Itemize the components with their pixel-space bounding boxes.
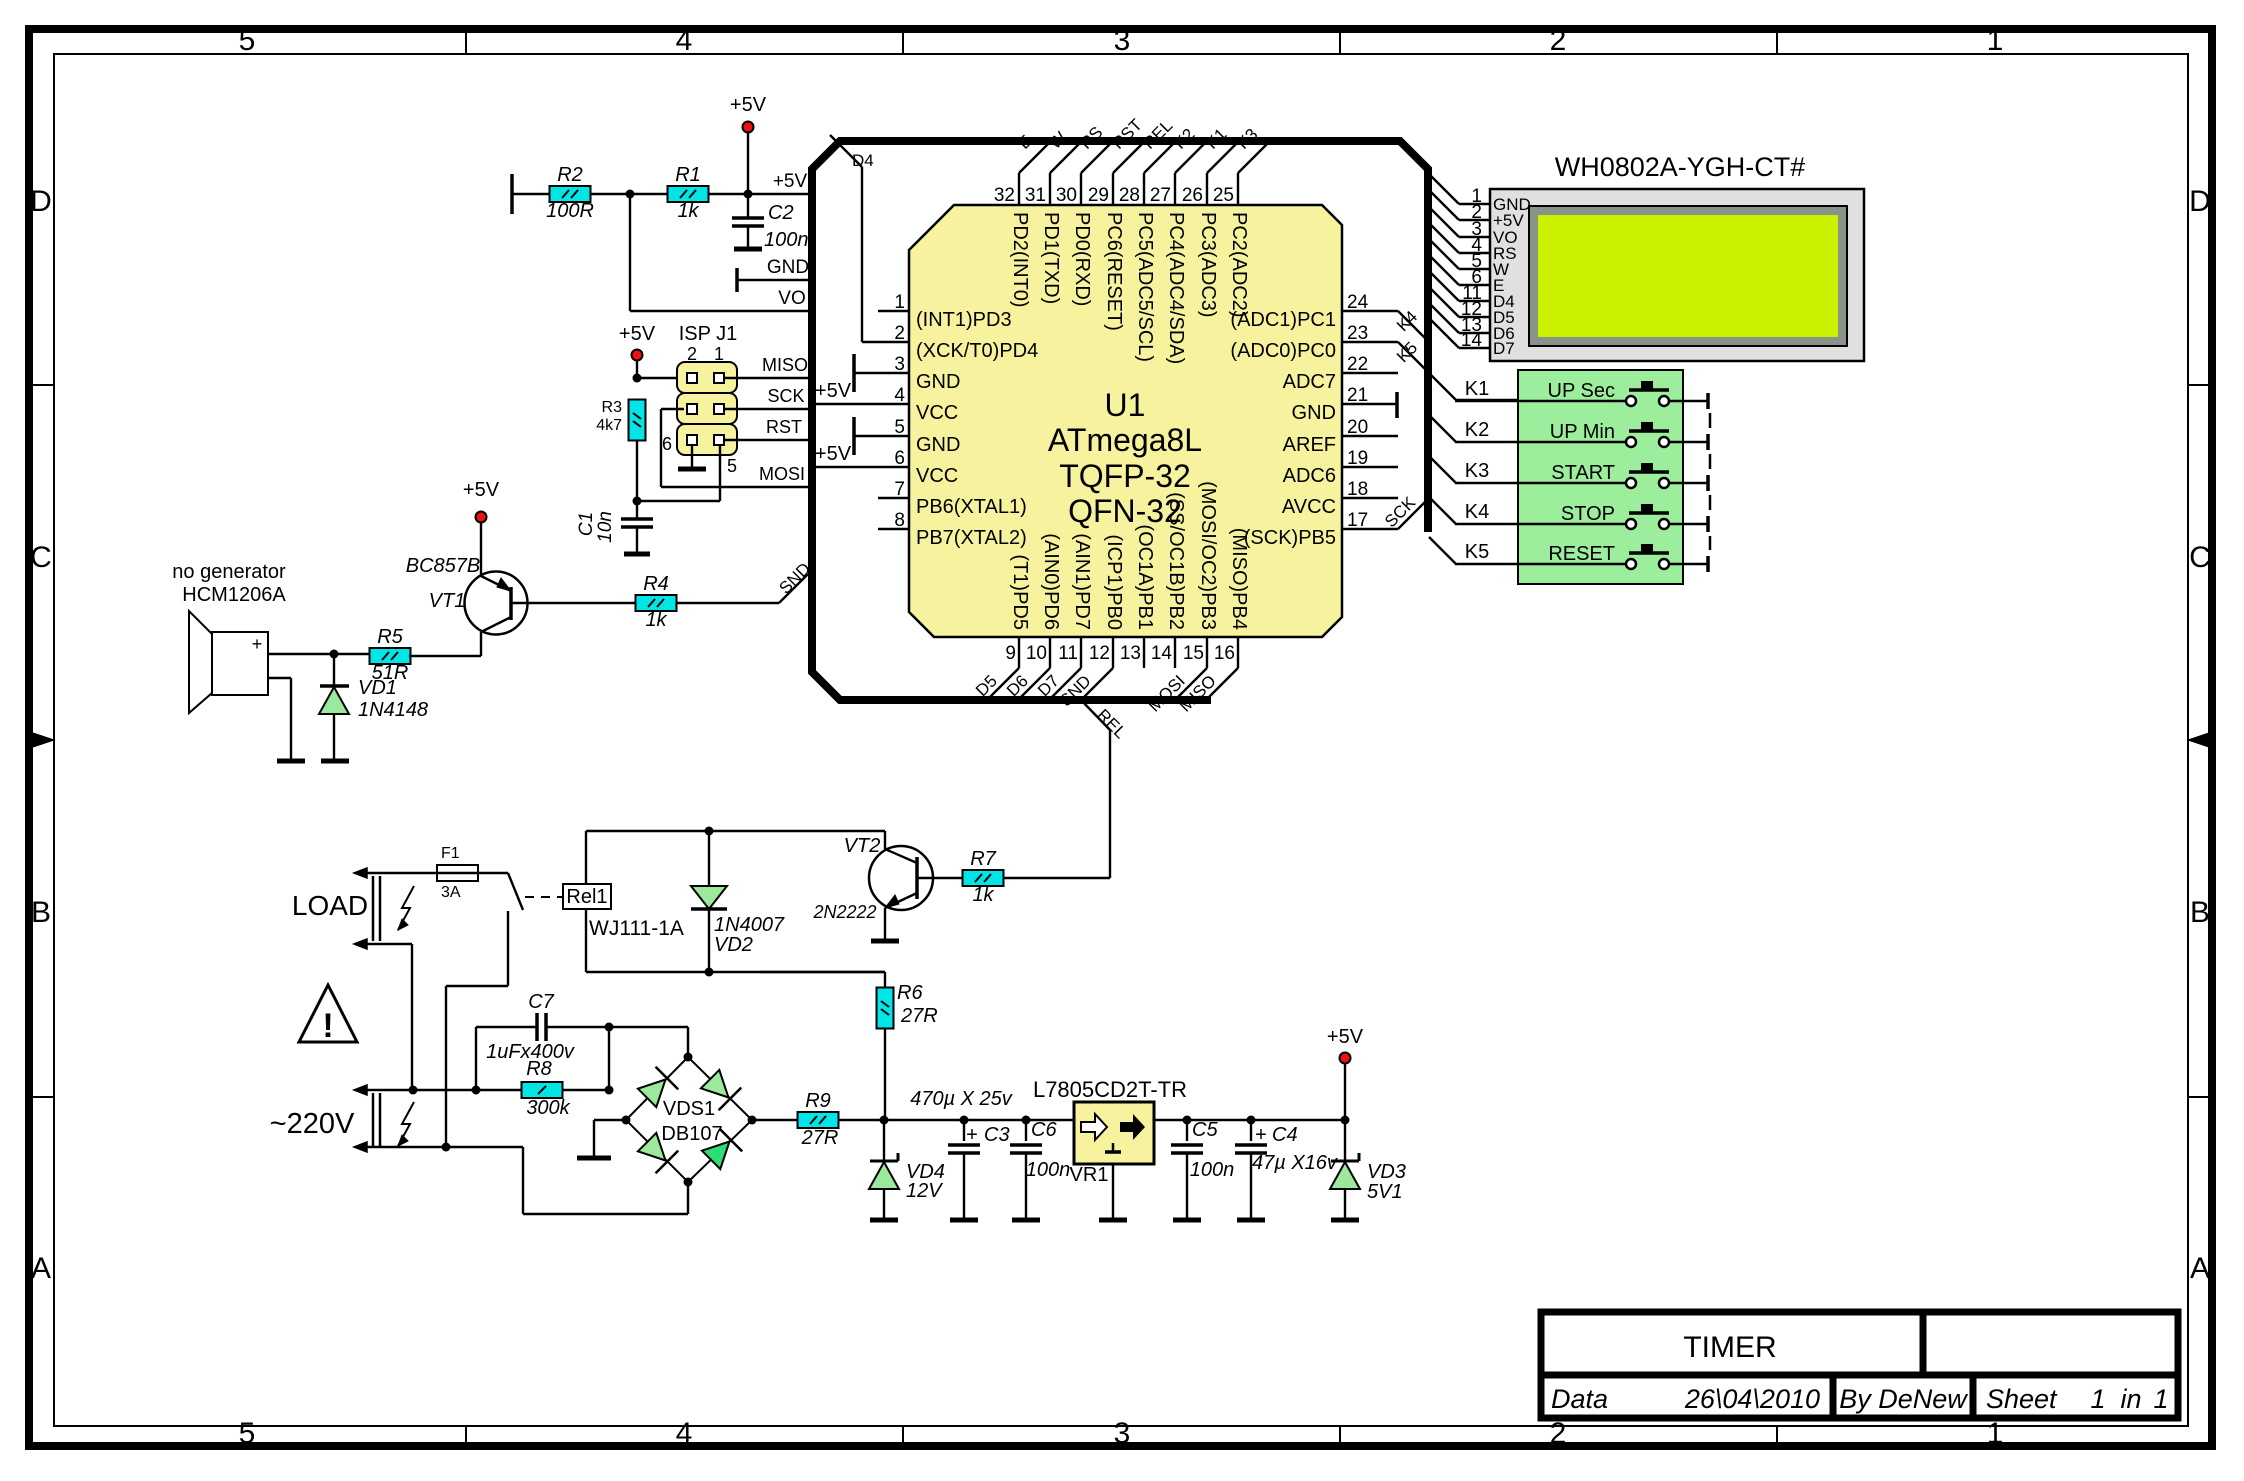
svg-text:100R: 100R bbox=[546, 200, 594, 222]
svg-text:VR1: VR1 bbox=[1070, 1164, 1109, 1186]
svg-text:PD0(RXD): PD0(RXD) bbox=[1071, 212, 1093, 306]
svg-text:GND: GND bbox=[1292, 402, 1336, 424]
svg-text:C7: C7 bbox=[528, 991, 554, 1013]
svg-text:MISO: MISO bbox=[762, 355, 808, 375]
svg-text:in: in bbox=[2120, 1384, 2141, 1414]
svg-text:5V1: 5V1 bbox=[1367, 1181, 1403, 1203]
svg-text:100n: 100n bbox=[1026, 1159, 1071, 1181]
svg-text:PC4(ADC4/SDA): PC4(ADC4/SDA) bbox=[1165, 212, 1187, 364]
svg-text:A: A bbox=[31, 1252, 51, 1285]
svg-text:QFN-32: QFN-32 bbox=[1068, 493, 1182, 529]
svg-text:UP Min: UP Min bbox=[1550, 421, 1615, 443]
svg-text:26: 26 bbox=[1182, 185, 1203, 206]
svg-text:(MOSI/OC2)PB3: (MOSI/OC2)PB3 bbox=[1197, 481, 1219, 630]
svg-text:F1: F1 bbox=[441, 845, 460, 862]
svg-text:(XCK/T0)PD4: (XCK/T0)PD4 bbox=[916, 340, 1038, 362]
svg-text:R6: R6 bbox=[897, 982, 923, 1004]
svg-text:D: D bbox=[30, 185, 52, 218]
svg-text:+5V: +5V bbox=[815, 443, 852, 465]
svg-text:L7805CD2T-TR: L7805CD2T-TR bbox=[1033, 1077, 1187, 1102]
svg-text:C3: C3 bbox=[984, 1124, 1010, 1146]
svg-text:PB6(XTAL1): PB6(XTAL1) bbox=[916, 496, 1027, 518]
svg-text:!: ! bbox=[322, 1007, 333, 1045]
svg-text:2: 2 bbox=[1550, 24, 1567, 57]
svg-text:+: + bbox=[1255, 1124, 1267, 1146]
svg-text:(AIN1)PD7: (AIN1)PD7 bbox=[1071, 533, 1093, 630]
svg-text:U1: U1 bbox=[1105, 387, 1146, 423]
svg-text:(AIN0)PD6: (AIN0)PD6 bbox=[1040, 533, 1062, 630]
svg-text:R3: R3 bbox=[602, 399, 623, 416]
svg-text:TQFP-32: TQFP-32 bbox=[1059, 458, 1191, 494]
svg-text:13: 13 bbox=[1120, 643, 1141, 664]
svg-text:4k7: 4k7 bbox=[596, 417, 622, 434]
svg-text:ADC7: ADC7 bbox=[1283, 371, 1336, 393]
svg-text:PB7(XTAL2): PB7(XTAL2) bbox=[916, 527, 1027, 549]
svg-text:R8: R8 bbox=[526, 1058, 552, 1080]
svg-text:VT1: VT1 bbox=[429, 590, 466, 612]
svg-text:(ADC0)PC0: (ADC0)PC0 bbox=[1230, 340, 1336, 362]
svg-text:4: 4 bbox=[676, 24, 693, 57]
svg-text:5: 5 bbox=[239, 1417, 256, 1450]
svg-text:1k: 1k bbox=[972, 884, 994, 906]
svg-text:ATmega8L: ATmega8L bbox=[1048, 422, 1202, 458]
svg-text:27R: 27R bbox=[900, 1005, 938, 1027]
svg-text:K3: K3 bbox=[1465, 460, 1489, 482]
svg-text:25: 25 bbox=[1213, 185, 1234, 206]
svg-text:TIMER: TIMER bbox=[1683, 1331, 1776, 1364]
svg-text:K5: K5 bbox=[1465, 541, 1489, 563]
svg-text:(OC1A)PB1: (OC1A)PB1 bbox=[1134, 524, 1156, 630]
svg-text:+: + bbox=[966, 1124, 978, 1146]
svg-text:14: 14 bbox=[1151, 643, 1173, 664]
svg-text:AREF: AREF bbox=[1283, 434, 1336, 456]
svg-text:30: 30 bbox=[1056, 185, 1077, 206]
svg-text:15: 15 bbox=[1183, 643, 1204, 664]
svg-text:STOP: STOP bbox=[1561, 503, 1615, 525]
svg-text:10: 10 bbox=[1026, 643, 1047, 664]
svg-text:R1: R1 bbox=[675, 164, 701, 186]
svg-text:12: 12 bbox=[1089, 643, 1110, 664]
svg-text:5: 5 bbox=[727, 456, 737, 476]
svg-text:A: A bbox=[2190, 1252, 2210, 1285]
svg-text:BC857B: BC857B bbox=[406, 555, 481, 577]
svg-text:MOSI: MOSI bbox=[759, 464, 805, 484]
svg-text:GND: GND bbox=[916, 434, 960, 456]
svg-text:47µ X16v: 47µ X16v bbox=[1252, 1152, 1338, 1174]
svg-text:51R: 51R bbox=[372, 662, 409, 684]
svg-text:470µ X 25v: 470µ X 25v bbox=[910, 1088, 1013, 1110]
svg-text:VDS1: VDS1 bbox=[663, 1098, 715, 1120]
svg-text:Rel1: Rel1 bbox=[566, 886, 607, 908]
svg-text:no generator: no generator bbox=[172, 561, 286, 583]
svg-text:C2: C2 bbox=[768, 202, 794, 224]
svg-text:1: 1 bbox=[1987, 24, 2004, 57]
svg-text:PC2(ADC2): PC2(ADC2) bbox=[1228, 212, 1250, 318]
svg-text:1N4148: 1N4148 bbox=[358, 699, 428, 721]
svg-text:R2: R2 bbox=[557, 164, 583, 186]
svg-text:VCC: VCC bbox=[916, 465, 958, 487]
svg-text:+5V: +5V bbox=[1327, 1026, 1364, 1048]
svg-text:3A: 3A bbox=[441, 884, 461, 901]
svg-text:PD2(INT0): PD2(INT0) bbox=[1009, 212, 1031, 308]
svg-text:C: C bbox=[30, 541, 52, 574]
svg-text:GND: GND bbox=[916, 371, 960, 393]
svg-text:12V: 12V bbox=[906, 1180, 943, 1202]
svg-text:9: 9 bbox=[1005, 643, 1016, 664]
svg-text:LOAD: LOAD bbox=[292, 890, 368, 921]
svg-text:WJ111-1A: WJ111-1A bbox=[589, 917, 684, 940]
svg-text:(SS/OC1B)PB2: (SS/OC1B)PB2 bbox=[1165, 492, 1187, 630]
svg-text:R9: R9 bbox=[805, 1090, 831, 1112]
svg-text:By DeNew: By DeNew bbox=[1839, 1384, 1968, 1414]
svg-text:4: 4 bbox=[676, 1417, 693, 1450]
svg-text:SCK: SCK bbox=[767, 386, 804, 406]
svg-text:3: 3 bbox=[1114, 24, 1131, 57]
svg-text:C: C bbox=[2189, 541, 2211, 574]
svg-text:VD2: VD2 bbox=[714, 934, 753, 956]
svg-text:R4: R4 bbox=[643, 573, 669, 595]
svg-text:+5V: +5V bbox=[815, 380, 852, 402]
svg-text:AVCC: AVCC bbox=[1282, 496, 1336, 518]
svg-text:+5V: +5V bbox=[463, 479, 500, 501]
svg-text:1: 1 bbox=[2090, 1384, 2105, 1414]
svg-text:3: 3 bbox=[1114, 1417, 1131, 1450]
svg-text:5: 5 bbox=[239, 24, 256, 57]
svg-text:RST: RST bbox=[766, 417, 802, 437]
svg-text:D: D bbox=[2189, 185, 2211, 218]
svg-text:B: B bbox=[31, 896, 51, 929]
svg-text:UP Sec: UP Sec bbox=[1548, 380, 1615, 402]
svg-text:Data: Data bbox=[1551, 1384, 1608, 1414]
svg-text:~220V: ~220V bbox=[270, 1108, 355, 1140]
svg-text:6: 6 bbox=[662, 434, 672, 454]
svg-text:28: 28 bbox=[1119, 185, 1140, 206]
svg-text:+5V: +5V bbox=[773, 171, 808, 192]
svg-text:HCM1206A: HCM1206A bbox=[182, 584, 286, 606]
svg-text:B: B bbox=[2190, 896, 2210, 929]
svg-text:2: 2 bbox=[1550, 1417, 1567, 1450]
svg-text:RESET: RESET bbox=[1548, 543, 1615, 565]
svg-text:27: 27 bbox=[1150, 185, 1171, 206]
svg-text:1: 1 bbox=[1987, 1417, 2004, 1450]
svg-text:11: 11 bbox=[1058, 643, 1078, 664]
svg-text:VT2: VT2 bbox=[844, 835, 881, 857]
svg-text:PC6(RESET): PC6(RESET) bbox=[1103, 212, 1125, 331]
svg-text:D4: D4 bbox=[852, 151, 874, 170]
svg-text:C6: C6 bbox=[1031, 1119, 1057, 1141]
svg-text:ADC6: ADC6 bbox=[1283, 465, 1336, 487]
svg-text:(MISO)PB4: (MISO)PB4 bbox=[1228, 528, 1250, 630]
svg-text:29: 29 bbox=[1088, 185, 1109, 206]
svg-text:START: START bbox=[1551, 462, 1615, 484]
svg-text:10n: 10n bbox=[595, 511, 616, 543]
svg-text:27R: 27R bbox=[801, 1127, 839, 1149]
svg-text:(ICP1)PB0: (ICP1)PB0 bbox=[1103, 534, 1125, 630]
svg-text:1k: 1k bbox=[677, 200, 699, 222]
svg-text:300k: 300k bbox=[526, 1097, 570, 1119]
svg-text:2N2222: 2N2222 bbox=[812, 902, 876, 922]
svg-text:K4: K4 bbox=[1465, 501, 1489, 523]
svg-text:GND: GND bbox=[767, 257, 809, 278]
svg-text:100n: 100n bbox=[764, 229, 809, 251]
svg-text:VD3: VD3 bbox=[1367, 1161, 1406, 1183]
svg-text:31: 31 bbox=[1025, 185, 1046, 206]
svg-text:(SCK)PB5: (SCK)PB5 bbox=[1244, 527, 1336, 549]
svg-text:(INT1)PD3: (INT1)PD3 bbox=[916, 309, 1012, 331]
svg-text:PC3(ADC3): PC3(ADC3) bbox=[1197, 212, 1219, 318]
svg-text:+: + bbox=[252, 634, 263, 654]
svg-text:1N4007: 1N4007 bbox=[714, 914, 785, 936]
svg-text:1: 1 bbox=[2153, 1384, 2168, 1414]
svg-text:+5V: +5V bbox=[619, 323, 656, 345]
svg-text:C4: C4 bbox=[1272, 1124, 1298, 1146]
svg-text:R5: R5 bbox=[377, 626, 403, 648]
svg-text:K2: K2 bbox=[1465, 419, 1489, 441]
svg-text:C1: C1 bbox=[576, 512, 597, 536]
svg-text:C5: C5 bbox=[1192, 1119, 1218, 1141]
svg-text:VO: VO bbox=[778, 288, 805, 309]
svg-text:D7: D7 bbox=[1493, 339, 1515, 358]
svg-text:WH0802A-YGH-CT#: WH0802A-YGH-CT# bbox=[1555, 152, 1806, 182]
svg-text:PC5(ADC5/SCL): PC5(ADC5/SCL) bbox=[1134, 212, 1156, 362]
svg-text:16: 16 bbox=[1214, 643, 1235, 664]
svg-text:DB107: DB107 bbox=[661, 1123, 722, 1145]
svg-text:R7: R7 bbox=[970, 848, 996, 870]
svg-text:Sheet: Sheet bbox=[1986, 1384, 2058, 1414]
svg-text:32: 32 bbox=[994, 185, 1015, 206]
svg-text:+5V: +5V bbox=[730, 94, 767, 116]
svg-text:ISP J1: ISP J1 bbox=[679, 323, 738, 345]
svg-text:100n: 100n bbox=[1190, 1159, 1235, 1181]
svg-text:VCC: VCC bbox=[916, 402, 958, 424]
svg-text:1k: 1k bbox=[645, 609, 667, 631]
svg-text:14: 14 bbox=[1461, 330, 1483, 351]
svg-text:(T1)PD5: (T1)PD5 bbox=[1009, 554, 1031, 630]
svg-text:PD1(TXD): PD1(TXD) bbox=[1040, 212, 1062, 304]
svg-text:26\04\2010: 26\04\2010 bbox=[1684, 1384, 1820, 1414]
svg-text:K1: K1 bbox=[1465, 378, 1489, 400]
